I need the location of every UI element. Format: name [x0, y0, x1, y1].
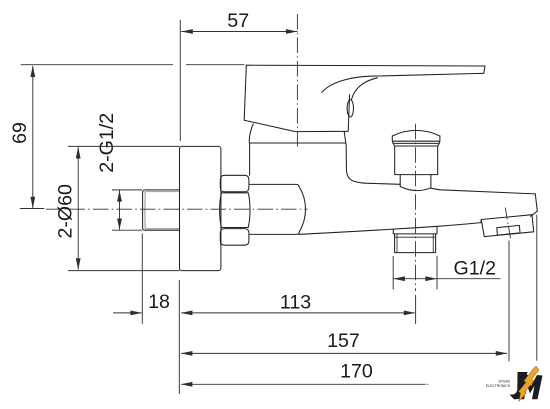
- dimension line 157: [181, 352, 507, 354]
- svg-text:G1/2: G1/2: [454, 258, 496, 280]
- arrow 157 right: [496, 351, 508, 356]
- hex nut middle facet barrel: [220, 193, 250, 228]
- vertical centerline of cartridge: [296, 14, 298, 147]
- valve barrel top: [250, 184, 299, 186]
- svg-text:157: 157: [327, 330, 360, 352]
- arrow 2-G1/2 bottom: [117, 219, 122, 231]
- svg-text:2-G1/2: 2-G1/2: [96, 113, 118, 173]
- arrow 2-G1/2 top: [117, 190, 122, 202]
- arrow G1/2 left: [393, 276, 405, 281]
- extension line flange face upper: [179, 20, 181, 141]
- escutcheon bell left edge: [249, 124, 253, 142]
- extension line 69 bottom: [20, 208, 45, 210]
- arrow 113 left: [181, 311, 193, 316]
- spout aerator box: [481, 215, 534, 237]
- dimension line dia60: [77, 147, 79, 269]
- svg-text:57: 57: [227, 10, 249, 32]
- logo lightning bolt: [518, 366, 539, 402]
- arrow 69 top: [30, 66, 35, 78]
- valve barrel right end cap arc: [299, 187, 305, 233]
- svg-text:JIYUAN: JIYUAN: [498, 380, 511, 384]
- arrow 57 left: [181, 29, 193, 34]
- diverter knob body: [395, 146, 438, 175]
- dimension line 113: [181, 312, 415, 314]
- handle lever inner curve: [352, 78, 378, 100]
- dimension line 170 faded end: [425, 383, 429, 385]
- wall flange disc: [180, 146, 221, 270]
- dimension line 69: [32, 66, 34, 208]
- body block left edge: [249, 143, 251, 175]
- hex nut bottom facet pillow: [220, 229, 249, 246]
- dimension line 170: [181, 383, 425, 385]
- arrow G1/2 right: [425, 276, 437, 281]
- svg-text:18: 18: [148, 291, 170, 313]
- svg-text:113: 113: [280, 292, 311, 314]
- arrow dia60 top: [76, 147, 81, 159]
- arrow 113 right: [404, 311, 416, 316]
- shower outlet flange: [393, 227, 437, 234]
- shower outlet thread relief lines: [395, 234, 436, 253]
- handle lever: [244, 65, 485, 120]
- valve barrel bottom: [250, 232, 299, 234]
- top reference line from lever: [21, 64, 245, 66]
- arrow 57 right: [286, 29, 298, 34]
- dimension line 57: [181, 31, 297, 33]
- spout outlet slanted centerline: [505, 208, 510, 239]
- main horizontal centerline: [46, 208, 308, 210]
- svg-text:69: 69: [9, 122, 31, 144]
- arrow 18 (outside pointing right): [130, 311, 142, 316]
- svg-text:170: 170: [340, 361, 373, 383]
- dimension line G1/2: [393, 278, 500, 280]
- spout aerator inner insert: [497, 225, 520, 235]
- spout tip right edge: [531, 194, 538, 216]
- leader line 18 left: [113, 312, 142, 314]
- extension line flange face lower: [178, 280, 180, 394]
- body block top and right transition into spout: [250, 143, 401, 184]
- extension lines 2-G1/2: [112, 190, 142, 230]
- spout underside: [299, 223, 481, 235]
- extension line 18 left: [141, 234, 143, 324]
- shower outlet thread body: [395, 234, 436, 253]
- arrow 170 left: [181, 382, 193, 387]
- extension line 170 right: [536, 215, 538, 361]
- arrow 69 bottom: [30, 197, 35, 209]
- extension lines G1/2 outlet: [393, 256, 437, 290]
- handle base: [244, 95, 349, 132]
- spout top edge: [431, 188, 535, 194]
- diverter knob cap: [392, 136, 440, 146]
- extension line 157 right: [508, 241, 510, 362]
- logo letter M: [518, 375, 543, 399]
- wall supply pipe: [143, 190, 180, 230]
- wall supply pipe thread lines: [145, 192, 180, 229]
- spout aerator left edge: [480, 220, 482, 223]
- dimension line 2-G1/2: [119, 190, 121, 229]
- logo letter J: [510, 372, 528, 399]
- arrow dia60 bottom: [76, 258, 81, 270]
- svg-text:2-Ø60: 2-Ø60: [55, 184, 77, 239]
- arrow 157 left: [181, 351, 193, 356]
- diverter knob dome: [392, 130, 440, 136]
- diverter knob neck: [400, 175, 431, 191]
- extension lines dia60: [68, 146, 180, 270]
- hex nut top facet pillow: [220, 175, 249, 192]
- svg-text:ELECTRONICS: ELECTRONICS: [486, 384, 511, 388]
- extension line 113 right: [415, 295, 417, 324]
- escutcheon bell right edge: [344, 132, 346, 144]
- diverter knob centerline: [415, 124, 417, 291]
- handle hinge pin ellipse: [347, 100, 353, 117]
